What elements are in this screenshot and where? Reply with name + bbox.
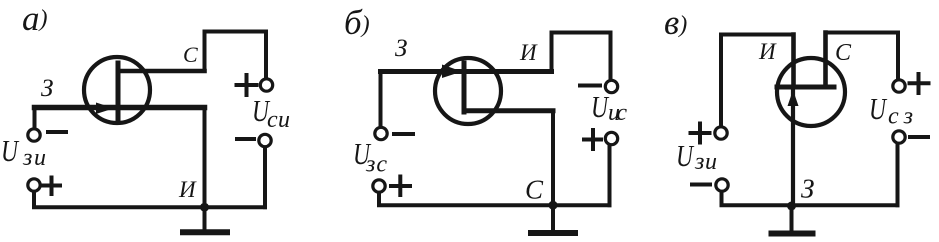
svg-text:зс: зс — [365, 152, 387, 178]
svg-text:зи: зи — [22, 145, 46, 171]
svg-text:З: З — [41, 75, 53, 102]
svg-text:U: U — [676, 138, 695, 173]
svg-text:U: U — [869, 91, 888, 126]
svg-text:зи: зи — [694, 149, 717, 175]
svg-text:С: С — [525, 175, 544, 205]
svg-text:С: С — [835, 40, 852, 66]
svg-text:ис: ис — [608, 100, 627, 126]
svg-text:З: З — [801, 174, 814, 204]
svg-text:И: И — [519, 40, 538, 65]
svg-text:U: U — [1, 133, 20, 168]
svg-text:С: С — [183, 42, 198, 67]
svg-text:си: си — [267, 107, 290, 133]
svg-text:И: И — [178, 177, 197, 202]
svg-text:И: И — [758, 39, 777, 64]
svg-text:З: З — [395, 35, 407, 62]
